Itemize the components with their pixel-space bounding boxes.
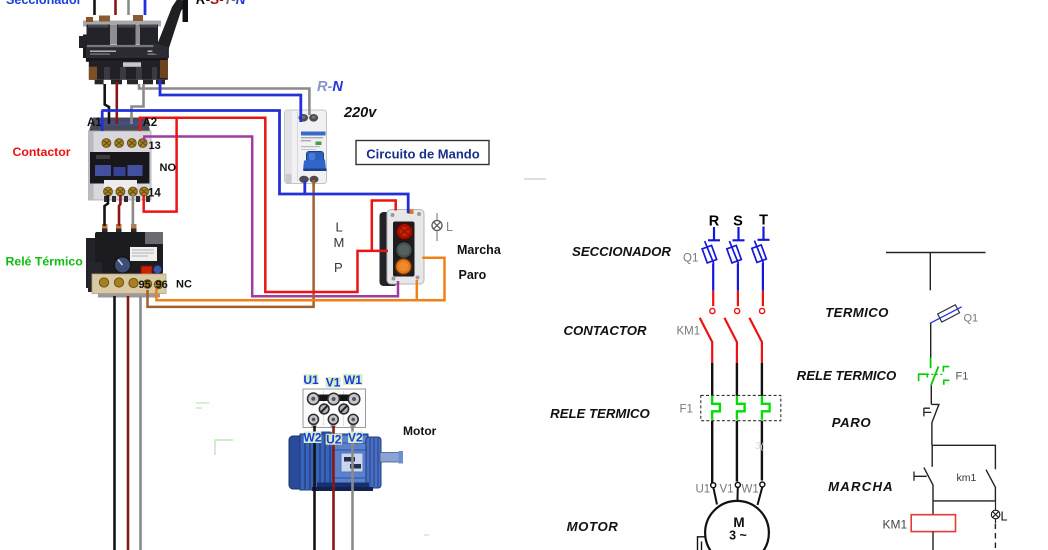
wire brown breaker bottom to control xyxy=(312,180,315,186)
terminal S xyxy=(733,227,745,240)
wire red contactor 14 self-hold xyxy=(144,118,177,212)
wire black rele termico output down xyxy=(113,296,116,550)
coil KM1 xyxy=(911,515,955,532)
svg-text:km1: km1 xyxy=(957,472,977,484)
wire blue N-phase top into seccionador xyxy=(144,0,147,15)
svg-text:Relé Térmico: Relé Térmico xyxy=(6,255,84,269)
svg-text:W1: W1 xyxy=(742,484,759,496)
svg-text:L: L xyxy=(1001,510,1008,524)
svg-text:TERMICO: TERMICO xyxy=(825,305,889,320)
seccionador Q1 photo xyxy=(79,0,188,84)
svg-text:PARO: PARO xyxy=(832,415,872,430)
svg-text:F1: F1 xyxy=(680,404,693,416)
terminal T xyxy=(758,227,770,240)
wire red branch to marcha button top xyxy=(372,201,396,251)
wire orange button box bottom stub xyxy=(416,280,419,300)
svg-text:14: 14 xyxy=(148,188,161,200)
wire gray contactor to rele termico xyxy=(132,195,135,226)
wire dark-red seccionador to contactor T2 xyxy=(116,82,119,124)
contactor contact KM1 pole R xyxy=(700,291,715,396)
thermal element pole R xyxy=(712,396,720,420)
wire thermal contact to paro xyxy=(930,385,932,404)
svg-text:220v: 220v xyxy=(343,105,377,121)
dashed wire below lamp xyxy=(994,524,996,550)
terminal label U1 xyxy=(304,374,319,385)
svg-text:13: 13 xyxy=(149,140,161,152)
wire black R-phase top into seccionador xyxy=(93,0,96,15)
motor terminal U1 xyxy=(711,483,716,488)
svg-text:MOTOR: MOTOR xyxy=(567,519,619,534)
lamp L control xyxy=(991,501,1007,524)
svg-text:U2: U2 xyxy=(326,433,342,447)
wire blue seccionador to breaker R-N input xyxy=(160,80,301,122)
wire gray from seccionador to contactor T3 xyxy=(132,84,144,124)
wire below coil xyxy=(932,532,934,550)
wire dark-red motor V xyxy=(332,426,335,550)
motor terminal V1 xyxy=(735,482,740,487)
wire gray from seccionador to breaker R-N xyxy=(139,84,309,115)
wire black motor U xyxy=(313,426,316,550)
svg-text:M: M xyxy=(334,235,345,250)
interruptor R-N (circuit breaker) photo xyxy=(285,110,327,184)
artifact faint green marks xyxy=(196,403,209,408)
rele termico F1 photo xyxy=(86,224,166,298)
svg-text:T: T xyxy=(759,213,768,229)
wire black contactor to rele termico xyxy=(105,195,109,226)
terminal label U2 xyxy=(326,434,343,445)
svg-text:W2: W2 xyxy=(304,430,322,444)
lamp symbol L at button box xyxy=(432,213,453,241)
contactor contact KM1 pole T xyxy=(749,291,764,396)
box Circuito de Mando xyxy=(356,141,489,165)
rele termico F1 dashed box xyxy=(701,395,781,420)
artifact faint gray line xyxy=(524,178,546,180)
svg-text:95: 95 xyxy=(139,279,151,291)
push-button marcha (NO) xyxy=(914,445,933,501)
wire blue breaker output stub xyxy=(303,181,306,194)
svg-text:NO: NO xyxy=(160,162,177,174)
wire gray T-phase top into seccionador xyxy=(127,0,130,15)
wire pole T to motor xyxy=(761,421,763,481)
svg-text:Motor: Motor xyxy=(403,424,437,438)
svg-text:Seccionador: Seccionador xyxy=(6,0,82,7)
fuse-switch Q1 pole R xyxy=(702,241,717,291)
wire W1 to motor xyxy=(758,487,763,505)
svg-text:RELE TERMICO: RELE TERMICO xyxy=(550,406,650,421)
push-button station photo (marcha/paro) xyxy=(380,210,425,287)
aux contact km1 xyxy=(957,470,996,501)
svg-text:A2: A2 xyxy=(143,117,158,129)
control bus line xyxy=(886,252,986,254)
terminal label V1 xyxy=(326,377,341,388)
svg-text:SECCIONADOR: SECCIONADOR xyxy=(572,244,671,259)
terminal label V2 xyxy=(348,432,363,444)
terminal label W2 xyxy=(304,432,322,444)
svg-text:R-S-T-N: R-S-T-N xyxy=(196,0,246,7)
svg-text:MARCHA: MARCHA xyxy=(828,479,894,494)
thermal element pole S xyxy=(737,396,745,420)
svg-text:Circuito de Mando: Circuito de Mando xyxy=(366,147,479,162)
contactor KM1 photo xyxy=(89,118,152,203)
wire red contactor A2 to button box xyxy=(140,118,388,292)
wire gray rele termico output down xyxy=(139,296,142,550)
svg-text:KM1: KM1 xyxy=(883,518,908,532)
wire black seccionador to contactor T1 xyxy=(105,84,109,124)
motor M 3~ xyxy=(705,501,769,550)
svg-text:R-N: R-N xyxy=(317,79,343,95)
contactor contact KM1 pole S xyxy=(724,291,739,396)
svg-text:96: 96 xyxy=(156,279,168,291)
fuse-switch Q1 pole S xyxy=(727,241,742,291)
wire U1 to motor xyxy=(713,488,717,505)
thermal relay contact F1 control xyxy=(919,358,950,386)
svg-text:Contactor: Contactor xyxy=(13,145,71,159)
svg-text:A1: A1 xyxy=(87,117,102,129)
wire purple contactor 13 to paro button xyxy=(144,137,398,297)
svg-text:Q1: Q1 xyxy=(683,253,698,265)
svg-text:NC: NC xyxy=(176,279,192,291)
wire V1 to motor xyxy=(736,487,738,502)
wire gray motor W xyxy=(351,426,354,550)
svg-text:CONTACTOR: CONTACTOR xyxy=(563,323,647,338)
svg-text:V1: V1 xyxy=(326,376,341,390)
wire dark-red rele termico output down xyxy=(127,296,130,550)
push-button paro (NC) xyxy=(924,404,939,445)
thermal element pole T xyxy=(762,396,770,420)
wire dark-red S-phase top into seccionador xyxy=(114,0,117,15)
svg-text:U1: U1 xyxy=(696,484,711,496)
svg-text:P: P xyxy=(334,260,343,275)
wire blue A1 stub xyxy=(101,111,104,132)
svg-text:KM1: KM1 xyxy=(677,326,701,338)
svg-text:L: L xyxy=(336,220,343,235)
motor earth hook xyxy=(698,537,707,550)
svg-text:RELE TERMICO: RELE TERMICO xyxy=(797,368,897,383)
svg-text:Paro: Paro xyxy=(459,268,487,282)
fuse-switch Q1 pole T xyxy=(752,241,767,291)
wire brown breaker output to rele termico 95 xyxy=(148,180,314,307)
svg-text:V2: V2 xyxy=(348,430,363,444)
join marcha/km1 xyxy=(933,500,995,502)
svg-text:U1: U1 xyxy=(303,373,319,387)
wire blue contactor A1 to breaker and marcha button xyxy=(102,111,409,214)
fuse Q1 control xyxy=(930,305,962,324)
wire orange rele termico 96 to paro button xyxy=(156,258,444,301)
motor terminal box xyxy=(303,389,366,428)
svg-text:3 ~: 3 ~ xyxy=(729,529,747,543)
wire dark-red contactor to rele termico xyxy=(119,195,120,226)
svg-text:Q1: Q1 xyxy=(964,313,979,325)
terminal label W1 xyxy=(343,374,363,385)
svg-text:L: L xyxy=(446,220,453,234)
branch node to km1 xyxy=(932,445,996,469)
wire bus to fuse xyxy=(929,253,931,291)
wire to coil xyxy=(932,501,934,515)
motor terminal W1 xyxy=(760,482,765,487)
svg-text:W1: W1 xyxy=(344,373,362,387)
svg-text:F1: F1 xyxy=(956,371,969,383)
svg-text:V1: V1 xyxy=(720,484,734,496)
svg-text:Marcha: Marcha xyxy=(457,243,502,257)
wire pole S to motor xyxy=(736,421,738,482)
seccionador handle xyxy=(155,0,187,54)
motor photo xyxy=(289,432,403,492)
wire pole R to motor xyxy=(711,421,713,483)
wire fuse to thermal contact xyxy=(930,323,932,357)
terminal R xyxy=(708,227,720,240)
